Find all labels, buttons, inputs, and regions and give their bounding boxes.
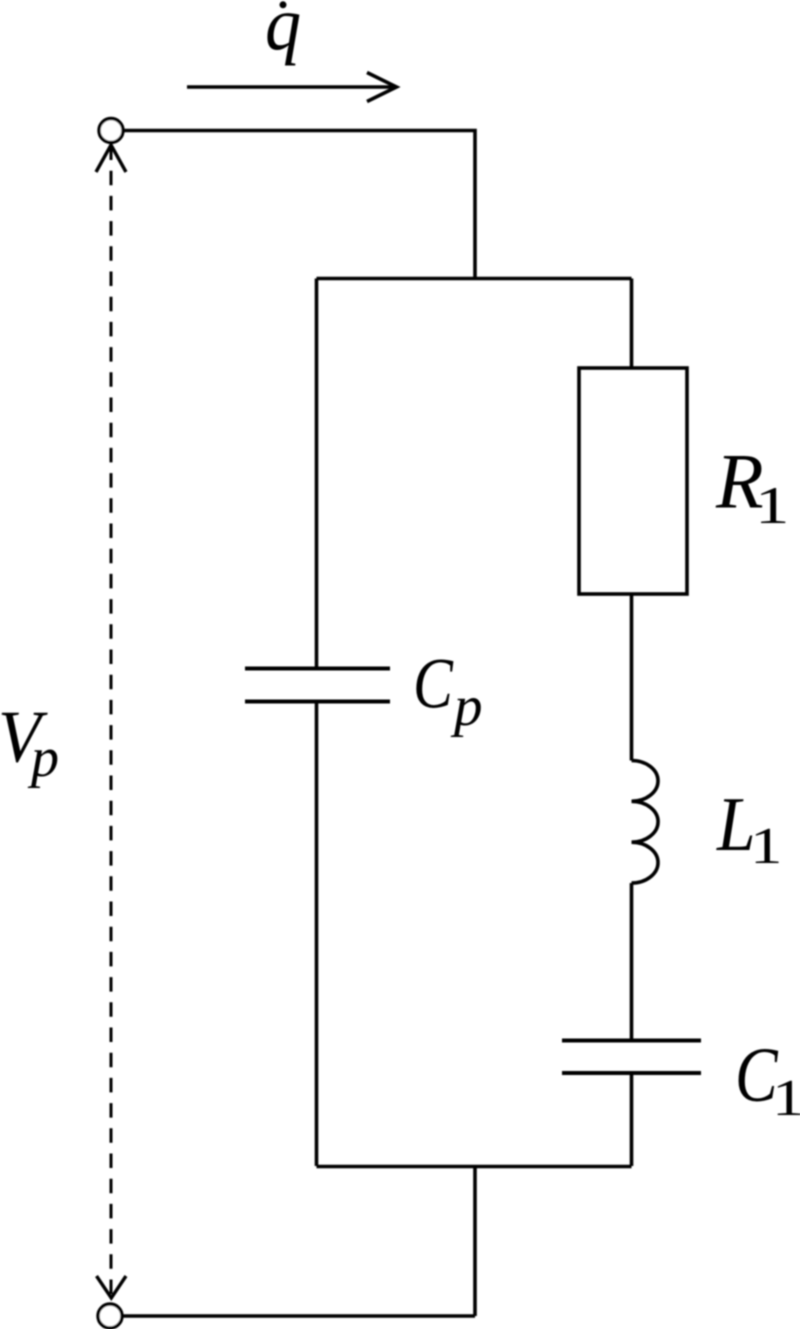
svg-text:1: 1 [772,1069,800,1126]
label Vp [0,696,59,789]
capacitor C1 [562,1041,701,1074]
label L1 [716,782,782,875]
wire: inner loop bottom [317,1165,632,1169]
wire: left branch upper (to Cp) [315,279,319,669]
node: top terminal [99,119,123,143]
label q dot [265,0,301,66]
label C1 [735,1032,800,1126]
svg-text:1: 1 [755,476,789,535]
wire top: terminal to tap corner [123,131,475,279]
arrowhead down (Vp bottom) [97,1276,127,1298]
wire: right branch upper (to R1) [630,279,634,369]
inductor L1 [632,761,659,884]
Vp dashed measurement line [110,146,113,1298]
wire: R1 to L1 [630,594,634,761]
wire: L1 to C1 [630,883,634,1040]
current arrow line (q dot) [187,85,394,89]
svg-text:p: p [27,727,59,789]
arrowhead up (Vp top) [96,145,126,172]
wire: inner loop top [317,277,632,281]
resistor R1 [579,368,687,594]
svg-text:1: 1 [750,817,783,874]
node: bottom terminal [98,1304,122,1328]
current arrowhead [367,73,397,102]
label R1 [715,438,789,536]
wire bottom: tap to terminal [122,1314,475,1318]
wire: left branch lower (from Cp) [315,702,319,1166]
capacitor Cp [245,669,390,702]
label Cp [413,644,483,738]
svg-text:p: p [450,675,483,738]
svg-text:C: C [413,644,454,723]
wire: bottom tap down [473,1167,477,1317]
wire: C1 to bottom [630,1074,634,1166]
svg-text:q: q [265,0,301,66]
